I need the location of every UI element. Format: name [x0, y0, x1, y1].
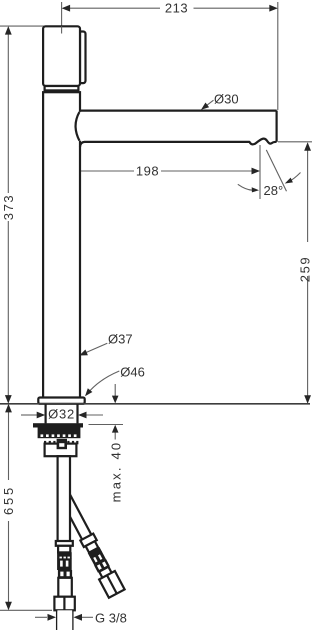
- label G 3/8: [35, 610, 127, 625]
- diagonal hose: [58, 494, 124, 598]
- spout: [72, 111, 277, 147]
- column body: [43, 92, 80, 398]
- base flange: [38, 398, 84, 404]
- svg-text:373: 373: [1, 194, 16, 221]
- handle knob: [43, 26, 80, 86]
- vertical hose crimp fitting: [56, 541, 73, 578]
- dimension 213: [62, 1, 278, 110]
- clamp screw: [57, 439, 67, 449]
- mounting nut: [38, 428, 81, 439]
- svg-text:Ø30: Ø30: [214, 92, 239, 107]
- shank: [46, 404, 78, 423]
- svg-text:Ø32: Ø32: [48, 407, 75, 422]
- knob centerline: [61, 26, 63, 33]
- svg-text:G 3/8: G 3/8: [95, 610, 127, 625]
- dimension 259: [278, 142, 313, 404]
- hose tube vertical: [58, 456, 70, 541]
- svg-text:259: 259: [298, 256, 313, 283]
- svg-text:28°: 28°: [264, 183, 284, 198]
- svg-text:655: 655: [1, 485, 16, 515]
- threaded end: [57, 610, 73, 630]
- counter line: [0, 403, 310, 405]
- washer: [33, 423, 83, 427]
- dimension max 40: [89, 384, 124, 502]
- dimension 198: [62, 143, 260, 199]
- dimension diameter 32: [21, 407, 103, 422]
- 28 degree spray angle annotation: [238, 150, 301, 198]
- clamp bracket: [45, 444, 77, 457]
- label diameter 30: [201, 92, 239, 110]
- thread ticks: [44, 441, 78, 444]
- svg-text:Ø37: Ø37: [108, 332, 133, 347]
- dimension 373: [0, 26, 46, 404]
- dimension 655: [0, 404, 52, 610]
- svg-text:213: 213: [165, 1, 188, 16]
- handle button: [80, 32, 86, 84]
- label diameter 46: [85, 365, 145, 397]
- hose nut G3/8: [54, 597, 74, 611]
- svg-text:Ø46: Ø46: [120, 365, 145, 380]
- svg-text:198: 198: [136, 163, 159, 178]
- svg-text:max. 40: max. 40: [109, 441, 124, 503]
- collar: [45, 86, 79, 90]
- vertical hose lower tube: [58, 578, 72, 597]
- label diameter 37: [79, 332, 132, 356]
